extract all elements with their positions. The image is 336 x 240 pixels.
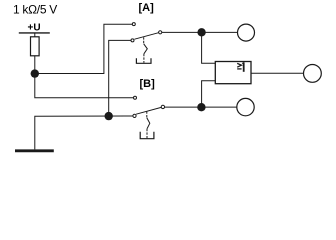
switch A spring-return chevron [144, 44, 148, 54]
OR gate label >=1 [237, 62, 244, 72]
switch A linkage lower dash [143, 54, 145, 63]
svg-text:[A]: [A] [139, 2, 155, 14]
junction on ground rail [105, 112, 113, 120]
switch A lever [135, 33, 159, 40]
switch B push-button head [140, 132, 154, 139]
terminal output indicator [304, 65, 322, 83]
wire switch A lower contact to ground rail [109, 40, 131, 116]
wire switch A common to node [162, 31, 238, 33]
terminal B indicator [237, 98, 254, 115]
switch B upper contact [134, 96, 137, 99]
switch A actuator linkage [143, 37, 145, 44]
switch B common contact [161, 105, 164, 108]
switch B lower contact [133, 114, 136, 117]
wire switch B common to node [165, 106, 237, 108]
switch B linkage lower dash [146, 129, 148, 138]
resistor R1 1 kOhm [31, 37, 40, 56]
wire node A to OR gate input 1 [202, 32, 216, 63]
wire N1 down to switch B upper contact [35, 74, 134, 98]
wire N1 to switch A upper contact [35, 24, 133, 73]
wire resistor to node N1 [34, 56, 36, 74]
svg-text:+U: +U [28, 23, 41, 34]
wire node B to OR gate input 2 [202, 81, 216, 108]
switch A common contact [159, 31, 162, 34]
switch B spring-return chevron [147, 118, 150, 129]
switch A push-button head [136, 58, 151, 63]
junction node B output [197, 103, 205, 111]
switch A upper contact [132, 23, 135, 26]
OR gate U1 [215, 62, 251, 84]
ground [15, 149, 54, 152]
wire OR gate output [251, 72, 304, 74]
junction node A output [197, 28, 205, 36]
junction node N1 [31, 69, 39, 77]
ground rail wire [35, 116, 133, 149]
wire supply bar to resistor [34, 33, 36, 37]
switch B lever [136, 107, 161, 114]
terminal A indicator [238, 24, 255, 41]
svg-text:1 kΩ/5 V: 1 kΩ/5 V [13, 2, 57, 16]
supply rail +U bar [19, 32, 50, 34]
switch B actuator linkage [146, 111, 148, 117]
switch A lower contact [131, 39, 134, 42]
svg-text:[B]: [B] [140, 78, 156, 90]
